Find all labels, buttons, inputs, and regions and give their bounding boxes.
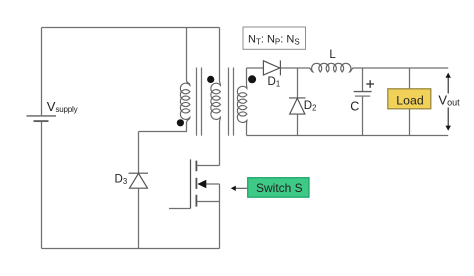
phase dot primary [207, 76, 214, 83]
diode D3 wire (top) [138, 132, 140, 173]
transformer secondary lead (bottom) [246, 125, 248, 136]
svg-text:L: L [329, 49, 336, 61]
wire: L to output right end [353, 67, 448, 69]
capacitor C wire (bottom) [362, 97, 364, 136]
diode D3 [129, 173, 148, 188]
MOSFET drain wire [197, 165, 220, 167]
capacitor C [354, 92, 372, 97]
transformer secondary winding N_S [237, 84, 247, 125]
gate vertical [190, 159, 192, 208]
diode D1 [263, 60, 280, 75]
svg-text:Vout: Vout [438, 92, 460, 107]
wire: secondary top to D1 [247, 67, 264, 69]
wire: output bottom rail [247, 135, 449, 137]
diode D2 [289, 98, 306, 114]
svg-text:Load: Load [396, 94, 424, 108]
phase dot secondary [248, 75, 256, 83]
Vout measurement arrow [446, 73, 451, 131]
channel dash (source) [195, 195, 197, 207]
wire: D1 to inductor L [280, 67, 309, 69]
transformer tertiary lead (bottom) to D3 [139, 122, 187, 132]
svg-text:D2: D2 [304, 100, 317, 113]
svg-text:Switch S: Switch S [256, 181, 303, 195]
transformer primary winding N_P [211, 81, 221, 123]
MOSFET gate stub wire [169, 208, 191, 210]
wire: input top rail [42, 27, 220, 29]
label + (capacitor polarity) [366, 80, 374, 88]
transformer core [197, 68, 234, 136]
MOSFET source vertical to bottom rail [219, 184, 221, 249]
transformer secondary N_S lead (top) [246, 68, 248, 84]
diode D2 wire (bottom) [297, 114, 299, 135]
wire: supply negative vertical [41, 122, 43, 249]
load branch wire (top) [409, 68, 411, 89]
load box [388, 89, 431, 109]
svg-text:D3: D3 [115, 174, 128, 187]
wire: supply positive vertical [41, 28, 43, 116]
Switch S callout arrow [235, 187, 248, 189]
battery V_supply [27, 116, 57, 121]
MOSFET source wire [197, 201, 220, 203]
svg-text:D1: D1 [268, 76, 281, 89]
svg-text:C: C [350, 100, 359, 114]
diode D3 wire (bottom) [138, 188, 140, 248]
capacitor C branch wire (top) [362, 68, 364, 91]
phase dot tertiary [177, 119, 184, 126]
transformer tertiary N_T lead (top) [186, 28, 188, 81]
MOSFET substrate arrow [197, 180, 206, 189]
channel dash (drain) [195, 161, 197, 172]
MOSFET substrate wire [206, 183, 220, 185]
transformer tertiary winding N_T [180, 81, 190, 123]
label box NT:NP:NS [243, 27, 306, 49]
svg-text:NT: NP: NS: NT: NP: NS [248, 33, 300, 46]
load wire (bottom) [409, 109, 411, 136]
transformer primary lead (bottom, to MOSFET drain) [219, 122, 221, 166]
channel dash (body) [195, 178, 197, 189]
Switch S green box [248, 178, 309, 198]
MOSFET switch Q [191, 159, 197, 208]
transformer primary N_P lead (top) [219, 28, 221, 81]
wire: input bottom rail [42, 248, 220, 250]
svg-text:Vsupply: Vsupply [47, 99, 78, 114]
inductor L coil [309, 63, 354, 72]
diode D2 branch wire (top) [297, 68, 299, 98]
